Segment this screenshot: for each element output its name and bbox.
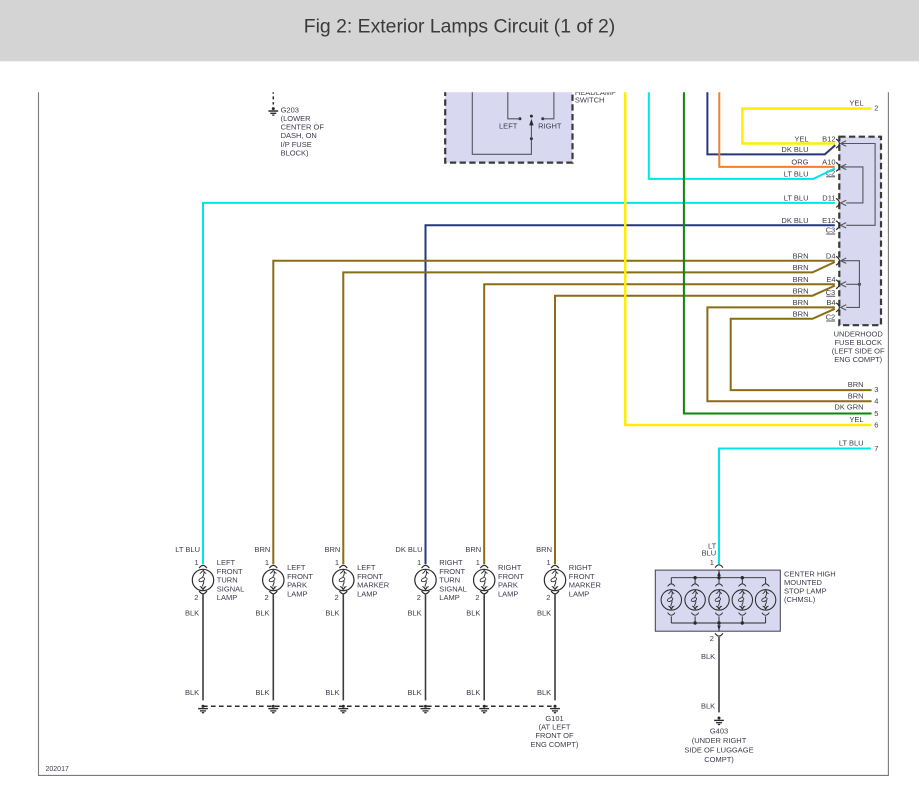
svg-text:LT BLU: LT BLU [784,170,809,179]
wire LT BLU from headlamp switch to fuse A10 [649,80,835,179]
svg-text:DK BLU: DK BLU [781,216,808,225]
svg-text:1: 1 [547,558,551,567]
headlamp switch wiper arrow [530,125,532,139]
svg-text:DK BLU: DK BLU [395,545,422,554]
svg-text:4: 4 [874,396,878,405]
CHMSL bus junction at x=719 [717,576,720,579]
svg-text:TURN: TURN [439,576,460,585]
lamp right front marker lamp [536,545,601,602]
headlamp switch S1 box (partial, cut at top) [445,80,572,163]
ground symbol under left front park lamp [268,705,278,713]
svg-text:BRN: BRN [793,263,809,272]
svg-text:ORG: ORG [791,158,808,167]
lamp left front turn signal lamp [175,545,244,602]
CHMSL center high mounted stop lamp box [655,570,780,631]
svg-text:PARK: PARK [287,581,307,590]
wire DK GRN from headlamp switch to connector pin 5 [684,80,872,414]
CHMSL bottom bus [671,622,765,624]
svg-text:BLK: BLK [701,652,715,661]
headlamp switch pivot contact [530,115,533,118]
ground G203 symbol [268,107,278,115]
svg-text:BRN: BRN [793,275,809,284]
svg-text:BLK: BLK [466,609,480,618]
svg-text:RIGHT: RIGHT [498,563,522,572]
svg-text:2: 2 [417,593,421,602]
svg-text:BLK: BLK [255,609,269,618]
svg-text:BLK: BLK [185,609,199,618]
fuse block internal junction at E4 bus [858,283,861,286]
svg-text:6: 6 [874,421,878,430]
fuse block pin arrow at y=202.9 [841,200,847,205]
svg-text:YEL: YEL [849,415,863,424]
svg-text:LAMP: LAMP [217,593,237,602]
wire BLK from left front park lamp to ground splice [272,594,274,700]
svg-text:BRN: BRN [793,252,809,261]
svg-text:1: 1 [265,558,269,567]
CHMSL wire label LT BLU [702,542,717,558]
svg-text:BLK: BLK [408,609,422,618]
svg-text:DK BLU: DK BLU [781,145,808,154]
svg-text:FRONT: FRONT [439,567,465,576]
wire BRN from fuse D4 to left front park lamp [273,261,835,565]
svg-text:D11: D11 [822,194,835,203]
fuse block pin connector arc at y=284.3 [836,280,839,289]
fuse block pin connector arc at y=260.7 [836,256,839,265]
fuse block internal bus A10-D11 [841,167,863,203]
fuse block pin arrow at y=225.3 [841,223,847,228]
wire BRN from fuse E4 to right front park lamp [484,284,835,564]
svg-text:FRONT: FRONT [357,572,383,581]
svg-text:RIGHT: RIGHT [538,121,562,130]
svg-text:2: 2 [874,104,878,113]
svg-text:D4: D4 [826,252,836,261]
svg-text:E4: E4 [826,275,835,284]
fuse block pin connector arc at y=202.9 [836,198,839,207]
CHMSL bulb at x=765.6 [755,578,775,623]
svg-text:LAMP: LAMP [498,589,518,598]
svg-text:YEL: YEL [794,134,808,143]
svg-text:FRONT: FRONT [498,572,524,581]
headlamp switch RIGHT contact and wire [541,117,544,120]
svg-text:5: 5 [874,409,878,418]
wire BLK from left front turn signal lamp to ground splice [202,594,204,700]
svg-text:BLK: BLK [466,688,480,697]
fuse block pin connector arc at y=166.9 [836,162,839,171]
svg-text:C3: C3 [826,226,836,235]
svg-text:COMPT): COMPT) [704,755,734,764]
svg-text:LEFT: LEFT [217,558,236,567]
wire BRN from fuse B4 to connector pin 3 [731,309,872,390]
CHMSL bulb at x=695.1 [685,578,705,623]
svg-text:BRN: BRN [848,391,864,400]
wire DK BLU from fuse E12 to right front turn signal lamp [426,225,835,564]
svg-text:2: 2 [194,593,198,602]
wire YEL from headlamp switch to connector pin 6 [625,80,871,425]
svg-text:LAMP: LAMP [439,593,459,602]
fuse block pin connector arc at y=307.4 [836,303,839,312]
svg-text:SIGNAL: SIGNAL [439,584,467,593]
CHMSL bulb at x=671.3 [661,578,681,623]
svg-text:TURN: TURN [217,576,238,585]
svg-text:BLK: BLK [325,688,339,697]
ground symbol under left front marker lamp [338,705,348,713]
CHMSL bulb at x=719 [709,578,729,623]
svg-text:FRONT: FRONT [569,572,595,581]
ground G203 dashed lead [272,85,274,105]
lamp left front marker lamp [324,545,389,602]
svg-text:BLK: BLK [408,688,422,697]
svg-text:LAMP: LAMP [357,589,377,598]
CHMSL pin 2 [715,633,723,636]
headlamp switch wiper junction [530,137,533,140]
lamp left front park lamp [254,545,313,602]
ground symbol under right front marker lamp [550,705,560,713]
svg-text:BRN: BRN [793,287,809,296]
wire BLK from left front marker lamp to ground splice [342,594,344,700]
svg-text:BRN: BRN [536,545,552,554]
CHMSL bus junction at x=695.1 [693,576,696,579]
svg-text:BLK: BLK [185,688,199,697]
CHMSL feed arrow [718,570,720,578]
svg-text:2: 2 [335,593,339,602]
svg-text:7: 7 [874,444,878,453]
svg-text:SIGNAL: SIGNAL [217,584,245,593]
svg-text:2: 2 [546,593,550,602]
headlamp switch internal wire (left feed) [472,80,531,154]
wire LT BLU from fuse D11 to left front turn signal lamp [203,203,835,564]
svg-text:LEFT: LEFT [287,563,306,572]
svg-text:1: 1 [476,558,480,567]
underhood fuse block box [839,137,881,326]
svg-text:FRONT: FRONT [217,567,243,576]
ground symbol under right front park lamp [479,705,489,713]
svg-text:(CHMSL): (CHMSL) [784,595,816,604]
svg-text:1: 1 [710,558,714,567]
svg-text:ENG COMPT): ENG COMPT) [834,355,882,364]
svg-text:B4: B4 [826,298,835,307]
svg-text:LAMP: LAMP [287,589,307,598]
CHMSL output arrow [718,623,720,631]
fuse block pin arrow at y=166.9 [841,164,847,169]
svg-text:1: 1 [417,558,421,567]
svg-text:BRN: BRN [793,298,809,307]
svg-text:2: 2 [710,634,714,643]
wire BRN from fuse E4 to right front marker lamp [555,286,835,565]
svg-text:LT BLU: LT BLU [175,545,200,554]
fuse block pin arrow at y=284.3 [841,282,847,287]
wire DK BLU from headlamp switch to fuse B12 [707,80,835,154]
diagram border frame [39,92,889,775]
ground G403 symbol [714,717,724,725]
svg-text:BLU: BLU [702,549,717,558]
svg-text:1: 1 [335,558,339,567]
CHMSL top bus [671,577,765,579]
svg-text:BLK: BLK [325,609,339,618]
headlamp switch LEFT contact and wire [518,117,521,120]
svg-text:LEFT: LEFT [499,121,518,130]
svg-text:BLK: BLK [537,609,551,618]
svg-text:LAMP: LAMP [569,589,589,598]
wire BRN from fuse D4 to left front marker lamp [343,262,835,564]
svg-text:BRN: BRN [254,545,270,554]
ground splice bus (dashed) to G101 [203,705,555,707]
CHMSL bus junction at x=742.3 [741,576,744,579]
svg-text:FRONT: FRONT [287,572,313,581]
wire YEL from fuse B12 to connector pin 2 [742,109,871,144]
svg-text:(UNDER RIGHT: (UNDER RIGHT [692,736,747,745]
svg-text:C2: C2 [826,313,836,322]
svg-text:BRN: BRN [324,545,340,554]
wire ORG from headlamp switch to fuse A10 [719,80,835,167]
svg-text:BLOCK): BLOCK) [281,148,309,157]
svg-text:Fig 2: Exterior Lamps Circuit: Fig 2: Exterior Lamps Circuit (1 of 2) [304,16,615,38]
fuse block internal bus D4-E4-B4 [841,261,859,308]
svg-text:A10: A10 [822,158,835,167]
CHMSL bulb at x=742.3 [732,578,752,623]
title bar [0,0,919,61]
svg-text:RIGHT: RIGHT [569,563,593,572]
svg-text:LEFT: LEFT [357,563,376,572]
fuse block pin arrow at y=307.4 [841,305,847,310]
svg-text:BLK: BLK [701,702,715,711]
svg-text:2: 2 [475,593,479,602]
svg-text:MARKER: MARKER [357,581,390,590]
svg-text:2: 2 [265,593,269,602]
wire BRN from fuse B4 to connector pin 4 [707,307,871,401]
svg-text:BLK: BLK [537,688,551,697]
wire BLK from right front turn signal lamp to ground splice [425,594,427,700]
lamp right front turn signal lamp [395,545,466,602]
fuse block pin arrow at y=260.7 [841,258,847,263]
svg-text:G403: G403 [710,726,728,735]
svg-text:RIGHT: RIGHT [439,558,463,567]
lamp right front park lamp [465,545,524,602]
fuse block pin connector arc at y=225.3 [836,221,839,230]
fuse block pin connector arc at y=143.5 [836,139,839,148]
wire BLK from right front park lamp to ground splice [483,594,485,700]
fuse block internal bus B12-E12 [841,144,875,226]
svg-text:LT BLU: LT BLU [839,439,864,448]
ground symbol under left front turn signal lamp [198,705,208,713]
svg-text:BRN: BRN [465,545,481,554]
svg-text:1: 1 [195,558,199,567]
svg-text:MARKER: MARKER [569,581,602,590]
svg-text:202017: 202017 [46,766,69,773]
svg-text:B12: B12 [822,134,835,143]
svg-text:BLK: BLK [255,688,269,697]
wire BLK from CHMSL to ground G403 [718,637,720,712]
fuse block pin arrow at y=143.5 [841,141,847,146]
svg-text:LT BLU: LT BLU [784,194,809,203]
svg-text:3: 3 [874,385,878,394]
ground symbol under right front turn signal lamp [421,705,431,713]
svg-text:SWITCH: SWITCH [575,96,605,105]
svg-text:E12: E12 [822,216,835,225]
wire LT BLU from connector pin 7 to CHMSL [719,449,871,565]
svg-text:BRN: BRN [793,310,809,319]
wire BLK from right front marker lamp to ground splice [554,594,556,700]
svg-text:ENG COMPT): ENG COMPT) [531,740,579,749]
svg-text:YEL: YEL [849,98,863,107]
svg-text:BRN: BRN [848,380,864,389]
svg-text:SIDE OF LUGGAGE: SIDE OF LUGGAGE [684,746,753,755]
svg-text:DK GRN: DK GRN [834,403,863,412]
svg-text:PARK: PARK [498,581,518,590]
